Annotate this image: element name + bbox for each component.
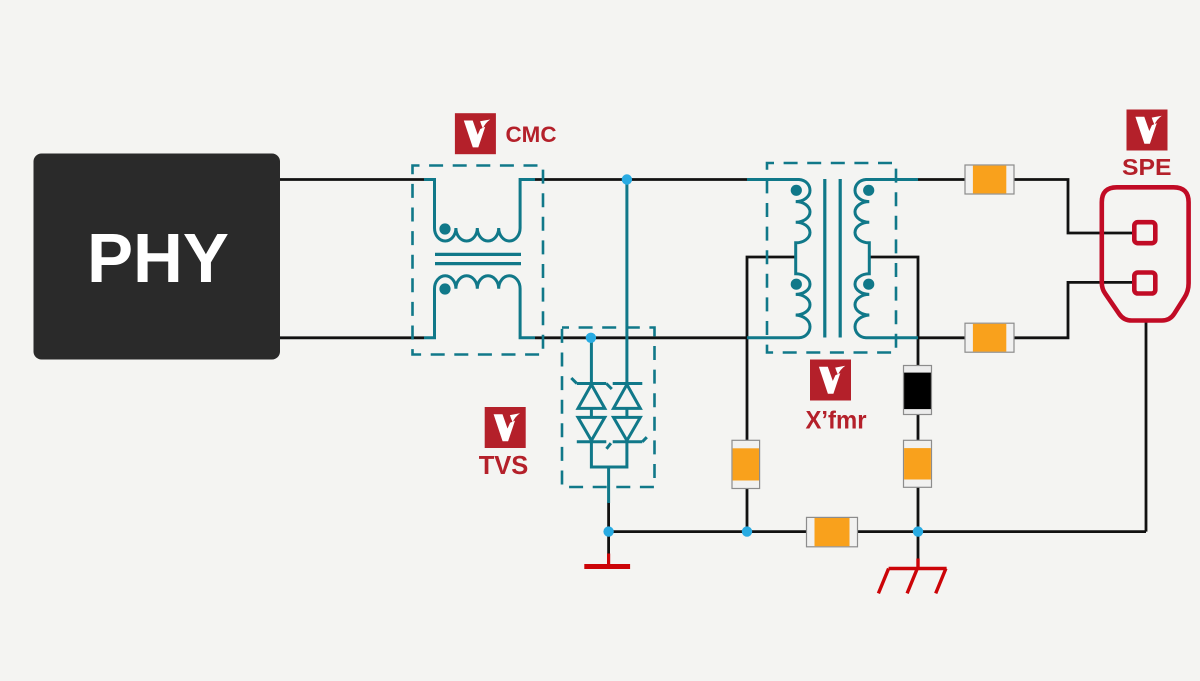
TVS riser right (to top wire) bbox=[625, 180, 628, 384]
transformer dashed box bbox=[767, 163, 896, 353]
TVS D1 lower triangle bbox=[578, 417, 605, 440]
TVS dashed box bbox=[562, 328, 655, 488]
wire transformer to SPE pin1 (top) bbox=[918, 180, 1134, 234]
TVS D2 bottom bar bbox=[613, 440, 643, 443]
svg-text:TVS: TVS bbox=[479, 452, 529, 480]
resistor R3 (left center-tap, vertical) bbox=[732, 440, 760, 488]
chassis ground stem bbox=[916, 559, 919, 569]
wire chassis stub bbox=[917, 532, 920, 559]
resistor R4 (right center-tap, vertical) bbox=[904, 440, 932, 487]
TVS D1 bottom bar bbox=[577, 440, 607, 443]
junction dot rail / left tap bbox=[742, 526, 752, 536]
TVS D1 top bar bbox=[577, 382, 607, 385]
wire CMC to transformer bottom bbox=[535, 336, 747, 339]
wire PHY to CMC bottom bbox=[280, 336, 424, 339]
transformer core line 2 bbox=[839, 179, 842, 338]
transformer dot left-top bbox=[791, 185, 802, 196]
CMC top winding bbox=[424, 180, 535, 242]
CMC core line 1 bbox=[435, 253, 521, 256]
diode D3 (black body, vertical) bbox=[904, 366, 932, 415]
svg-text:CMC: CMC bbox=[506, 122, 557, 147]
TVS D2 bottom bar tick bbox=[642, 437, 647, 442]
resistor R5 (ground rail, horizontal) bbox=[807, 517, 858, 546]
TVS common anode U bbox=[591, 442, 627, 467]
transformer dot left-bottom bbox=[791, 279, 802, 290]
wire left center tap bbox=[747, 257, 796, 532]
wire bottom ground rail bbox=[609, 530, 1146, 533]
wire SPE shell drop bbox=[1145, 321, 1148, 532]
svg-text:PHY: PHY bbox=[87, 219, 229, 297]
TVS D1 bottom bar tick bbox=[607, 443, 611, 449]
TVS D2 top bar bbox=[613, 382, 643, 385]
Vishay badge TVS bbox=[485, 407, 526, 448]
chassis ground bar bbox=[889, 567, 947, 570]
CMC dot bottom bbox=[439, 283, 450, 294]
SPE pin 1 bbox=[1134, 222, 1155, 243]
wire PHY to CMC top bbox=[280, 178, 424, 181]
junction dot top wire / TVS riser bbox=[622, 174, 632, 184]
Vishay badge CMC bbox=[455, 113, 496, 154]
transformer right winding bbox=[855, 180, 918, 338]
Vishay badge X'fmr bbox=[810, 360, 851, 401]
CMC core line 2 bbox=[435, 262, 521, 265]
TVS D2 upper triangle bbox=[614, 385, 641, 409]
wire right center tap bbox=[869, 257, 918, 532]
ground (signal) bar bbox=[584, 564, 630, 569]
TVS D1 middle link bbox=[590, 408, 593, 417]
TVS D1 upper triangle bbox=[578, 385, 605, 409]
wire transformer to SPE pin2 (bottom) bbox=[918, 282, 1134, 337]
CMC bottom winding bbox=[424, 276, 535, 338]
junction dot rail / chassis bbox=[913, 526, 923, 536]
wire CMC to transformer top bbox=[535, 178, 747, 181]
CMC dot top bbox=[439, 223, 450, 234]
resistor R2 (bottom series, horizontal) bbox=[965, 323, 1014, 352]
Vishay badge SPE bbox=[1127, 110, 1168, 151]
PHY block bbox=[34, 154, 281, 360]
chassis ground stroke 1 bbox=[878, 569, 888, 594]
junction dot bottom wire / TVS riser bbox=[586, 333, 596, 343]
SPE connector shell bbox=[1102, 187, 1189, 320]
ground (signal) stem bbox=[607, 554, 610, 567]
transformer core line 1 bbox=[823, 179, 826, 338]
chassis ground stroke 3 bbox=[936, 569, 946, 594]
TVS riser left (to bottom wire) bbox=[590, 338, 593, 384]
wire TVS to ground rail bbox=[607, 502, 610, 554]
TVS D1 top bar tick left bbox=[571, 378, 577, 384]
svg-text:SPE: SPE bbox=[1122, 154, 1172, 180]
junction dot rail / TVS ground bbox=[603, 526, 613, 536]
SPE pin 2 bbox=[1134, 273, 1155, 294]
resistor R1 (top series, horizontal) bbox=[965, 165, 1014, 194]
TVS ground tap bbox=[607, 467, 610, 503]
CMC dashed box bbox=[413, 166, 544, 355]
transformer left winding bbox=[747, 180, 810, 338]
TVS D1 top bar tick right bbox=[606, 384, 612, 390]
transformer dot right-top bbox=[863, 185, 874, 196]
TVS D2 middle link bbox=[625, 408, 628, 417]
transformer dot right-bottom bbox=[863, 279, 874, 290]
chassis ground stroke 2 bbox=[907, 569, 917, 594]
svg-text:X’fmr: X’fmr bbox=[806, 406, 867, 434]
TVS D2 lower triangle bbox=[614, 417, 641, 440]
